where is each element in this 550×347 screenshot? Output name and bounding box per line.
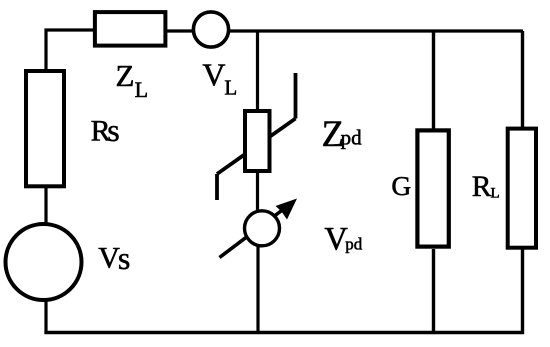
wire (44, 188, 47, 226)
source Vpd (220, 199, 298, 258)
label VL (202, 57, 237, 100)
wire (46, 30, 93, 70)
wire (521, 249, 524, 334)
svg-text:G: G (391, 170, 411, 201)
svg-text:L: L (491, 186, 500, 202)
label Zpd (322, 114, 363, 155)
svg-text:R: R (472, 171, 492, 203)
wire (256, 246, 259, 335)
resistor G (417, 130, 448, 246)
wire (256, 31, 259, 110)
resistor RS (26, 71, 64, 186)
resistor RL (508, 129, 536, 248)
resistor ZL (95, 12, 165, 46)
wire (521, 31, 524, 129)
svg-text:V: V (202, 57, 225, 93)
svg-text:s: s (107, 112, 119, 148)
label ZL (116, 58, 149, 102)
wire (432, 249, 435, 334)
wire (256, 173, 259, 216)
svg-text:L: L (135, 77, 148, 102)
label Vpd (324, 222, 362, 258)
wire (44, 331, 524, 334)
wire (44, 299, 47, 334)
svg-text:L: L (224, 76, 237, 100)
svg-text:pd: pd (341, 126, 363, 150)
photodiode impedance Zpd (217, 73, 296, 200)
svg-text:Z: Z (116, 58, 135, 93)
wire (167, 29, 194, 32)
wire (432, 31, 435, 130)
svg-text:pd: pd (345, 234, 363, 253)
label RL (472, 171, 500, 203)
meter VL (193, 12, 228, 47)
svg-text:s: s (118, 240, 130, 276)
wire (229, 29, 524, 32)
source VS (6, 224, 82, 300)
